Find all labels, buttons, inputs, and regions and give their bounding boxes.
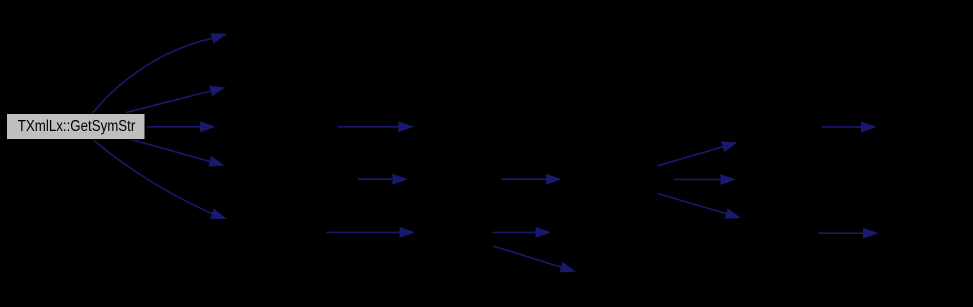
arrowhead E9 <box>400 227 416 238</box>
arrowhead E16 <box>863 228 879 239</box>
edge E8 <box>501 178 546 180</box>
edge E15 (top right) <box>822 126 861 128</box>
edge E10 <box>493 231 536 233</box>
edge E7 <box>358 178 393 180</box>
arrowhead E1 <box>211 33 227 44</box>
arrowhead E15 <box>861 121 877 132</box>
edge E13 (fan mid) <box>674 179 720 181</box>
arrowhead E10 <box>536 227 552 238</box>
arrowhead E13 <box>720 174 736 185</box>
arrowhead E8 <box>546 174 562 185</box>
node TXmlLx::GetSymStr (root) <box>7 114 146 140</box>
edge E11 (diagonal) <box>493 246 561 267</box>
edge E1 (root to top node) <box>93 38 213 113</box>
arrowhead E12 <box>721 142 737 153</box>
edge E12 (fan up) <box>658 147 723 166</box>
edge E4 <box>131 140 210 162</box>
arrowhead E4 <box>208 156 224 167</box>
edge E2 <box>126 91 211 112</box>
edge E6 <box>338 126 399 128</box>
edge E14 (fan down) <box>658 194 726 214</box>
arrowhead E11 <box>559 262 575 273</box>
arrowhead E6 <box>398 121 414 132</box>
edge E5 (root to bottom node) <box>94 141 212 214</box>
arrowhead E2 <box>209 86 225 97</box>
svg-text:TXmlLx::GetSymStr: TXmlLx::GetSymStr <box>18 118 136 135</box>
arrowhead E14 <box>724 208 740 219</box>
arrowhead E7 <box>392 174 408 185</box>
arrowhead E3 <box>200 121 216 132</box>
arrowhead E5 <box>210 209 226 220</box>
edge E3 <box>147 126 200 128</box>
edge E9 <box>326 231 399 233</box>
edge E16 (bottom right) <box>818 232 863 234</box>
